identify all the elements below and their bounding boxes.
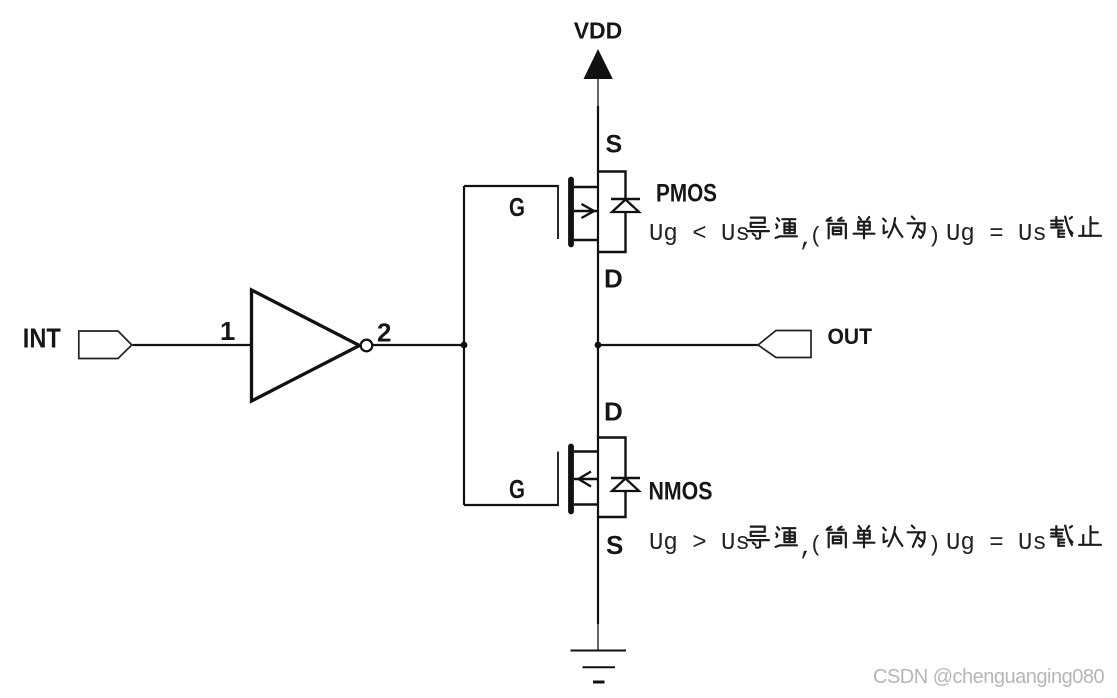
svg-text:G: G (509, 474, 525, 504)
svg-text:S: S (606, 530, 623, 560)
svg-text:G: G (509, 192, 525, 222)
svg-text:Ug > Us: Ug > Us (649, 530, 750, 557)
svg-text:1: 1 (220, 316, 234, 346)
svg-text:INT: INT (23, 323, 61, 354)
svg-text:Ug = Us: Ug = Us (946, 530, 1047, 557)
svg-text:CSDN @chenguanging080: CSDN @chenguanging080 (873, 666, 1104, 688)
power symbol VDD (arrow) (584, 49, 613, 107)
wire output to OUT port (598, 344, 758, 346)
annotation PMOS: Ug < Us conducting note (649, 217, 1101, 253)
wire inverter output to gate node (373, 344, 465, 346)
svg-text:): ) (928, 224, 941, 249)
svg-text:D: D (604, 263, 623, 293)
wire VDD rail (vertical drain/source rail) (597, 106, 599, 624)
svg-text:Ug = Us: Ug = Us (946, 221, 1047, 248)
svg-text:S: S (606, 131, 623, 159)
svg-text:PMOS: PMOS (656, 180, 717, 208)
inverter output bubble (361, 340, 373, 352)
transistor Q2 NMOS (558, 447, 598, 512)
body diode D2 (NMOS) (598, 438, 640, 518)
node (gate bus junction) (461, 342, 468, 349)
svg-text:NMOS: NMOS (649, 478, 713, 506)
wire INT to inverter input (133, 344, 252, 346)
svg-text:): ) (928, 533, 941, 558)
wire source stub to ground (597, 623, 599, 650)
port OUT (758, 331, 811, 358)
svg-text:VDD: VDD (574, 18, 623, 44)
inverter U1 (252, 290, 360, 401)
annotation NMOS: Ug > Us conducting note (649, 526, 1101, 562)
wire PMOS gate lead (464, 185, 558, 187)
svg-text:2: 2 (377, 317, 391, 347)
transistor Q1 PMOS (558, 180, 598, 245)
body diode D1 (PMOS) (598, 172, 640, 253)
svg-text:(: ( (810, 224, 823, 249)
svg-text:(: ( (810, 533, 823, 558)
port INT (79, 331, 132, 359)
svg-text:Ug < Us: Ug < Us (649, 221, 750, 248)
svg-text:D: D (604, 397, 623, 427)
wire gate bus vertical (463, 186, 465, 505)
node (output junction) (595, 342, 602, 349)
svg-text:OUT: OUT (828, 324, 873, 349)
ground (571, 651, 627, 683)
wire NMOS gate lead (464, 504, 558, 506)
